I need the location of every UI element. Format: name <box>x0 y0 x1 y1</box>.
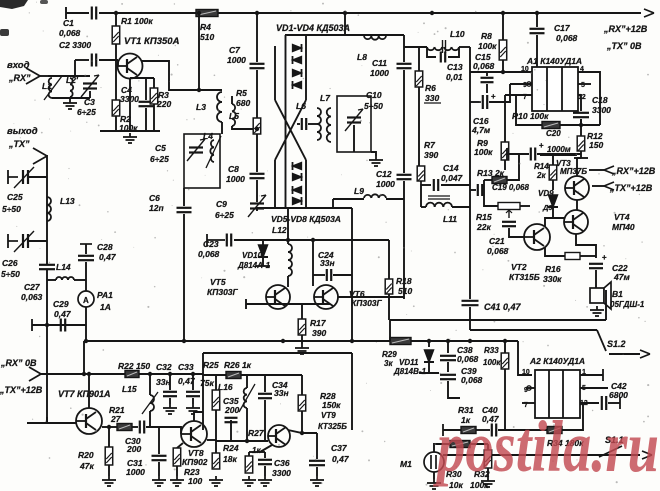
wire VT2 collector <box>545 218 564 227</box>
svg-text:Д814А-1: Д814А-1 <box>237 261 271 270</box>
wire R23 riser <box>177 443 183 448</box>
svg-text:L16: L16 <box>218 382 233 392</box>
wire TX line lower <box>183 214 185 341</box>
wire riser x84 <box>83 341 85 374</box>
capacitor C33 <box>186 392 200 396</box>
wire C4 bottom <box>145 108 147 131</box>
microphone M1 <box>424 452 444 472</box>
inductor L11 <box>426 203 452 207</box>
port arrow TX output <box>33 148 47 164</box>
wire C4 col <box>145 78 147 100</box>
wire fb mid <box>476 429 490 431</box>
svg-text:5÷50: 5÷50 <box>2 204 21 214</box>
ground speaker <box>590 306 604 316</box>
wire R25 riser <box>215 375 217 390</box>
wire C31 bottom <box>158 462 160 476</box>
wire C33 bottom <box>192 398 194 404</box>
svg-text:VD5-VD8 КД503А: VD5-VD8 КД503А <box>271 214 341 224</box>
diode VD1 <box>293 44 302 52</box>
wire C37 bottom <box>316 467 318 476</box>
svg-text:1А: 1А <box>100 302 111 312</box>
wire C33 riser <box>192 374 194 390</box>
wire VD10 bar <box>256 265 270 267</box>
wire R9 bottom <box>504 160 506 170</box>
wire mixer left rail lower <box>274 160 276 208</box>
wire input <box>40 75 48 77</box>
svg-text:1000м: 1000м <box>547 145 571 154</box>
svg-text:R13 2к: R13 2к <box>477 168 505 178</box>
wire box edge lower <box>469 307 471 330</box>
pot R15 wiper <box>508 210 510 218</box>
svg-text:C41 0,47: C41 0,47 <box>484 302 522 312</box>
junction PA1 rail <box>84 339 88 343</box>
resistor R28 <box>298 395 306 411</box>
wire R2 bottom <box>115 116 117 131</box>
svg-text:+: + <box>539 141 544 150</box>
wire mixer cross 1 <box>275 100 306 160</box>
box mic amp left <box>202 353 204 430</box>
capacitor C18 <box>573 113 589 117</box>
wire input tank top <box>48 75 90 77</box>
transistor VT2 <box>524 224 550 250</box>
wire mixer mid rail <box>285 35 287 208</box>
wire L9 left <box>333 198 364 200</box>
wire pin4 row <box>578 72 600 125</box>
ground R23 <box>170 476 184 486</box>
wire R20 riser <box>108 427 110 447</box>
svg-text:C2 3300: C2 3300 <box>59 40 91 50</box>
svg-text:12п: 12п <box>149 203 164 213</box>
svg-text:C21: C21 <box>489 236 505 246</box>
resistor R2 <box>112 100 120 116</box>
svg-text:С20: С20 <box>546 129 561 138</box>
junction top rail <box>535 11 539 15</box>
junction top rail <box>343 11 347 15</box>
svg-text:1000: 1000 <box>376 179 395 189</box>
junction top rail <box>501 11 505 15</box>
ic A1 opamp <box>532 67 578 111</box>
wire C38 riser <box>447 341 449 353</box>
ground VT1 stage <box>123 133 137 143</box>
svg-text:0,47: 0,47 <box>332 454 350 464</box>
wire C14 left <box>421 184 431 186</box>
wire C24 right <box>333 274 352 276</box>
wire base junctions <box>230 427 232 441</box>
arrow output <box>642 451 652 459</box>
wire L10 feed <box>404 46 427 48</box>
inductor L3 <box>217 92 222 122</box>
wire R33 bottom <box>504 369 506 430</box>
wire VT4 emitter <box>576 234 596 258</box>
svg-text:C12: C12 <box>376 169 392 179</box>
wire R28 bottom <box>301 411 303 433</box>
wire A2 pin5 <box>580 387 608 389</box>
wire R30 right <box>470 443 488 445</box>
capacitor C21 <box>502 222 516 226</box>
svg-text:150: 150 <box>589 140 603 150</box>
wire R8 riser <box>502 13 504 40</box>
wire C14 right <box>441 184 470 186</box>
resistor R29 <box>390 338 411 345</box>
wire L16 to base <box>246 420 248 441</box>
resistor R31 <box>461 427 476 434</box>
resistor R3 <box>150 88 158 104</box>
svg-text:C36: C36 <box>274 458 290 468</box>
svg-text:R1 100к: R1 100к <box>121 16 153 26</box>
wire R32 riser <box>487 444 489 450</box>
diode VD9 <box>548 195 558 207</box>
speaker B1 <box>590 282 611 309</box>
capacitor L6 coupling <box>302 118 306 130</box>
wire C32 riser <box>169 374 171 390</box>
wire VT5 gate <box>246 303 266 305</box>
inductor L9 <box>364 194 386 198</box>
ground R24 <box>209 476 223 486</box>
inductor L1 tuning arrow <box>44 76 62 100</box>
inductor L12 <box>288 244 292 276</box>
wire VD11 stub <box>428 341 430 347</box>
svg-text:330: 330 <box>425 93 439 103</box>
wire R25 bottom <box>215 410 217 441</box>
wire C29 row <box>32 324 86 326</box>
wire fb row left <box>443 429 461 431</box>
inductor L2 <box>70 78 73 97</box>
svg-text:C27: C27 <box>24 282 41 292</box>
diode VD8 <box>293 197 302 205</box>
capacitor C8 <box>250 174 265 178</box>
svg-text:R8: R8 <box>481 31 492 41</box>
resistor R18 <box>385 279 393 294</box>
wire L15 bottom <box>149 411 151 427</box>
wire R32 bottom <box>487 468 489 477</box>
ground R20 <box>102 476 116 486</box>
capacitor C38 <box>440 356 456 360</box>
svg-text:R17: R17 <box>310 318 327 328</box>
wire TX column2 <box>46 269 48 423</box>
svg-text:100к: 100к <box>119 123 138 133</box>
wire C28 bottom <box>85 262 87 291</box>
capacitor C25 trimmer <box>22 170 24 184</box>
svg-text:0,068: 0,068 <box>487 246 509 256</box>
svg-text:220: 220 <box>156 99 171 109</box>
wire R3 col <box>153 78 155 88</box>
wire +12V top rail <box>66 12 89 14</box>
svg-text:C26: C26 <box>2 258 18 268</box>
wire mixer riser <box>344 13 346 35</box>
svg-text:0,063: 0,063 <box>21 292 43 302</box>
wire pin12 row <box>578 95 581 111</box>
wire R18 bottom <box>388 294 390 320</box>
transistor VT5 <box>266 285 290 309</box>
junction top rail <box>255 11 259 15</box>
wire R20 bottom <box>108 465 110 476</box>
svg-text:„TX”: „TX” <box>8 139 30 149</box>
label R6 underline <box>424 102 441 104</box>
svg-text:VT1 КП350А: VT1 КП350А <box>124 36 180 47</box>
svg-text:VD1-VD4 КД503А: VD1-VD4 КД503А <box>276 23 350 33</box>
svg-text:L6: L6 <box>296 101 306 111</box>
wire L9 left drop <box>332 199 334 208</box>
ground R27 <box>242 476 256 486</box>
inductor L10 secondary <box>444 47 459 50</box>
svg-text:6÷25: 6÷25 <box>77 107 96 117</box>
wire VT3 top row <box>540 154 577 156</box>
svg-text:150к: 150к <box>322 400 341 410</box>
svg-text:L12: L12 <box>272 225 287 235</box>
svg-text:R14: R14 <box>534 162 549 171</box>
svg-text:75к: 75к <box>200 378 214 388</box>
box mic amp top <box>203 352 352 354</box>
wire C20 tick <box>506 148 508 160</box>
wire mixer right rail upper <box>305 35 307 100</box>
wire pin7 row <box>505 94 532 96</box>
transistor VT1 <box>118 54 143 79</box>
svg-text:R5: R5 <box>236 88 247 98</box>
wire gate joint <box>117 60 119 66</box>
svg-text:L14: L14 <box>56 262 71 272</box>
capacitor C17 <box>530 29 545 33</box>
wire C42 tick <box>619 397 621 409</box>
svg-text:3к: 3к <box>384 359 393 368</box>
wire C18 to R10 <box>580 119 582 125</box>
svg-text:L10: L10 <box>450 29 465 39</box>
wire af rail <box>470 329 597 331</box>
wire C13 right <box>448 47 459 57</box>
resistor R20 <box>105 447 113 465</box>
junction VT7 drain <box>87 372 91 376</box>
svg-text:вход: вход <box>7 60 30 71</box>
resistor R7 <box>417 166 425 181</box>
ground C31 <box>152 476 166 486</box>
wire C38-C39 <box>447 362 449 372</box>
wire drain riser to rail <box>198 13 200 90</box>
svg-text:330к: 330к <box>543 274 562 284</box>
inductor L8 <box>364 36 386 40</box>
svg-text:VD11: VD11 <box>399 358 419 367</box>
wire VT8 drain <box>194 412 203 421</box>
ground mid rail stub <box>295 344 309 354</box>
junction vt7 source <box>107 425 111 429</box>
wire C26 tick <box>7 234 9 248</box>
resistor R24 <box>212 453 220 469</box>
svg-text:33н: 33н <box>320 258 335 268</box>
svg-text:0,47: 0,47 <box>54 309 72 319</box>
ammeter PA1 <box>78 291 94 307</box>
wire L14 row <box>47 279 56 281</box>
ic A2 opamp <box>535 370 580 418</box>
wire top rail right <box>218 12 641 14</box>
wire R8 bottom <box>502 60 504 72</box>
wire C17 riser <box>536 13 538 27</box>
svg-text:0,068: 0,068 <box>461 375 483 385</box>
svg-text:КП303Г: КП303Г <box>207 287 239 297</box>
port arrow RX0V <box>29 367 41 381</box>
svg-text:33н: 33н <box>156 377 171 387</box>
capacitor C27 <box>39 265 55 269</box>
diode VD11 <box>424 350 434 362</box>
svg-text:0,068: 0,068 <box>473 61 495 71</box>
wire C31 riser <box>158 427 160 454</box>
junction C29 <box>45 323 49 327</box>
inductor L13 <box>47 197 51 221</box>
wire tx rail mid <box>139 373 203 375</box>
wire emitter node <box>249 451 265 453</box>
ground R32 <box>481 477 495 487</box>
diode VD6 <box>293 173 302 181</box>
svg-text:R20: R20 <box>78 450 94 460</box>
svg-text:1к: 1к <box>252 446 261 455</box>
resistor R34 <box>547 427 562 434</box>
capacitor C14 <box>434 179 438 191</box>
junction mid rail <box>503 339 507 343</box>
capacitor C1 <box>92 7 96 20</box>
junction mid rail <box>446 339 450 343</box>
svg-text:C28: C28 <box>97 242 113 252</box>
wire C26 stub <box>28 240 47 242</box>
wire VT9 emitter <box>260 445 272 452</box>
wire R2 col <box>115 60 117 100</box>
junction x84 <box>82 372 86 376</box>
resistor R27 <box>245 456 253 473</box>
wire R18 riser <box>388 240 390 279</box>
capacitor C16 <box>483 95 487 109</box>
wire C34 to base <box>264 420 266 441</box>
wire L15 riser <box>149 374 151 395</box>
wire pin5 stub <box>578 83 591 85</box>
wire VT9 base row <box>216 440 268 442</box>
wire C30 right <box>146 427 181 434</box>
svg-text:R24: R24 <box>223 443 239 453</box>
junction mid rail <box>427 339 431 343</box>
svg-text:0,068: 0,068 <box>198 249 220 259</box>
svg-text:C6: C6 <box>149 193 160 203</box>
svg-text:0,068: 0,068 <box>457 354 479 364</box>
wire R17 bottom <box>301 335 303 341</box>
svg-text:R29: R29 <box>382 350 397 359</box>
wire fb right <box>498 429 547 431</box>
wire C21 bottom <box>509 228 524 237</box>
transistor VT7 <box>76 408 102 434</box>
wire R3 bottom <box>153 104 155 131</box>
wire R10 row <box>516 95 542 125</box>
capacitor C7 <box>250 64 265 68</box>
svg-text:+: + <box>602 253 607 262</box>
resistor R9 <box>501 142 509 160</box>
junction mid rail <box>182 339 186 343</box>
junction collector vt9 <box>300 431 304 435</box>
svg-text:М1: М1 <box>400 459 412 469</box>
wire L9 right <box>386 198 404 200</box>
capacitor C24 <box>327 269 331 281</box>
wire R15 left <box>484 190 498 206</box>
wire R9 col <box>504 95 506 142</box>
wire C24 left <box>313 274 325 276</box>
svg-text:6÷25: 6÷25 <box>215 210 234 220</box>
switch S1.1 lever <box>599 446 622 457</box>
wire mixer cross 2 <box>275 100 306 160</box>
capacitor C29 <box>61 319 65 332</box>
svg-text:47к: 47к <box>79 461 94 471</box>
wire mixer right rail lower <box>305 160 307 208</box>
svg-text:VT5: VT5 <box>210 277 226 287</box>
svg-text:КТ325Б: КТ325Б <box>318 422 347 431</box>
svg-text:0,068: 0,068 <box>59 28 81 38</box>
capacitor C28 <box>78 256 94 260</box>
wire VT7 source row <box>102 426 117 428</box>
svg-text:КП902: КП902 <box>182 457 208 467</box>
svg-text:5÷50: 5÷50 <box>1 269 20 279</box>
junction L12 top <box>286 238 290 242</box>
box mic amp right <box>351 353 353 430</box>
wire source h <box>130 77 154 79</box>
capacitor C26 trimmer <box>22 234 24 248</box>
capacitor C23 <box>227 234 231 247</box>
wire rail to A2 <box>518 341 532 375</box>
inductor L15 arrow <box>142 392 158 414</box>
svg-text:0,47: 0,47 <box>178 376 196 386</box>
svg-text:C14: C14 <box>443 163 459 173</box>
wire R15 right <box>520 205 530 207</box>
inductor L4 arrow <box>206 136 221 168</box>
resistor R32 <box>484 450 492 468</box>
junction mid rail <box>468 339 472 343</box>
wire VT3 emitter <box>576 158 578 176</box>
junction L5 node <box>255 127 259 131</box>
resistor R6 <box>415 71 423 87</box>
wire C19 right <box>483 180 485 190</box>
resistor R33 <box>501 353 509 369</box>
svg-text:C23: C23 <box>203 239 219 249</box>
svg-text:VT4: VT4 <box>614 212 630 222</box>
capacitor C13 <box>441 52 445 63</box>
wire R28 riser <box>301 375 303 395</box>
diode VD5 <box>293 162 302 170</box>
inductor L15 <box>150 395 154 411</box>
capacitor C3 trimmer <box>81 75 99 97</box>
wire R5 bottom <box>256 134 258 172</box>
svg-text:33н: 33н <box>274 388 289 398</box>
svg-text:L4: L4 <box>203 131 213 141</box>
diode VD3 <box>293 69 302 77</box>
svg-text:КП303Г: КП303Г <box>351 298 383 308</box>
capacitor C20 <box>531 148 535 161</box>
svg-text:C19 0,068: C19 0,068 <box>492 183 529 192</box>
wire C20 row <box>507 153 529 155</box>
svg-text:C25: C25 <box>7 192 23 202</box>
resistor R22 <box>125 371 139 378</box>
resistor R23 <box>173 448 181 466</box>
scan smudge top-left <box>0 0 28 9</box>
arrow +12V supply <box>644 9 654 17</box>
svg-text:C8: C8 <box>228 164 239 174</box>
capacitor C31 <box>152 456 167 460</box>
wire VD9 bottom <box>553 208 565 218</box>
wire L12 riser <box>287 208 289 244</box>
svg-text:R27: R27 <box>248 428 265 438</box>
wire VT5 gate tick <box>245 299 247 309</box>
wire R10 right <box>560 124 600 126</box>
wire C18 bottom <box>580 119 582 136</box>
wire C7 col top <box>256 13 258 62</box>
wire PA1 bottom <box>85 307 87 341</box>
wire VT3 emitter bar <box>574 157 588 159</box>
wire mixer left rail upper <box>274 46 276 100</box>
wire tank bottom <box>52 97 90 99</box>
svg-text:3300: 3300 <box>272 468 291 478</box>
wire C10 bottom <box>353 125 355 152</box>
wire C13 left <box>427 47 436 57</box>
ground C33 <box>186 404 200 414</box>
